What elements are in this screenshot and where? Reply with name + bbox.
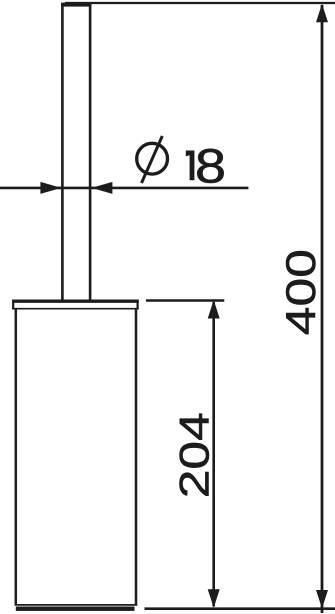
svg-text:8: 8 xyxy=(195,140,226,193)
svg-text:400: 400 xyxy=(277,249,324,335)
svg-text:204: 204 xyxy=(170,412,217,498)
